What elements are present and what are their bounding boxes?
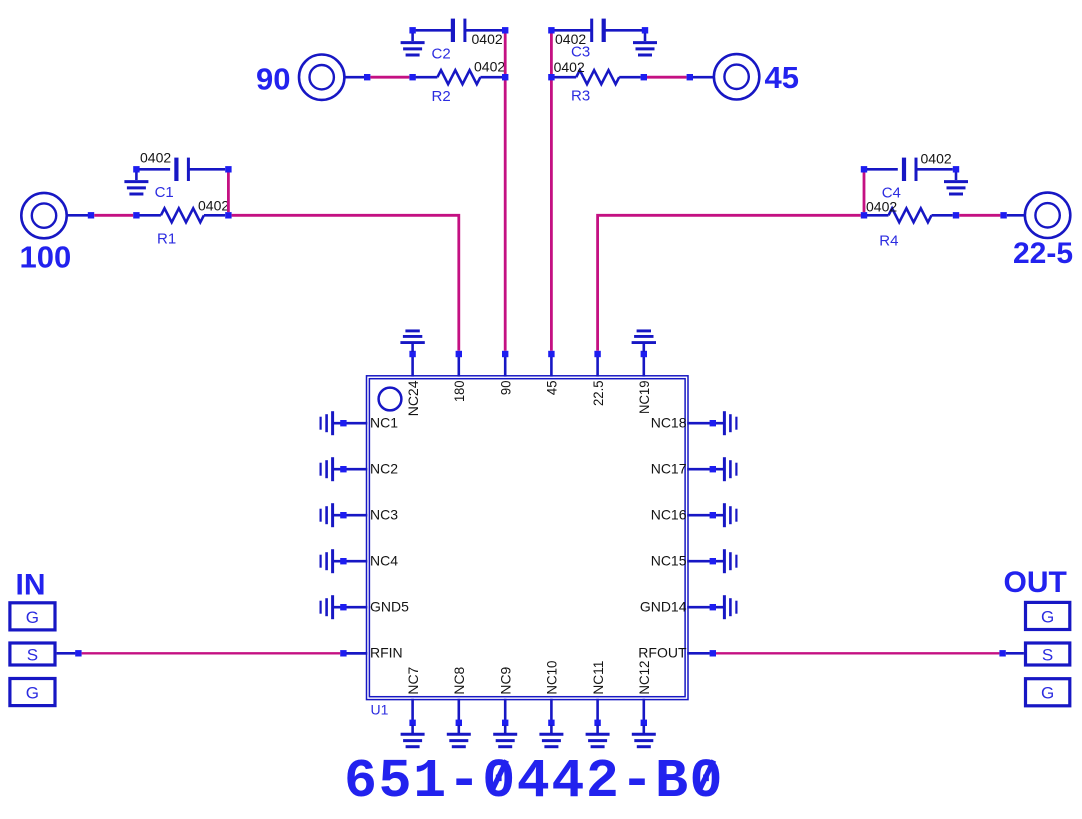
node [364,74,370,80]
svg-text:NC2: NC2 [370,460,398,476]
wire port100 to node [66,214,88,217]
capacitor C3 [548,19,642,61]
svg-text:R3: R3 [571,87,590,104]
svg-text:NC1: NC1 [370,414,398,430]
wire RFOUT net [716,652,999,654]
svg-text:G: G [1041,607,1054,626]
svg-text:R2: R2 [432,88,451,105]
pin NC16 (right) [651,506,725,522]
pin NC2 (left) [334,460,398,476]
pin NC9 (bottom) [497,666,513,726]
ground [493,725,517,747]
wire C4 down to R4 [863,173,866,213]
wire net 22.5 [598,215,861,350]
svg-text:90: 90 [497,380,513,395]
node [1000,212,1006,218]
wire node to port45 [693,76,714,79]
svg-text:NC9: NC9 [497,666,513,694]
node junction R4/C4 [861,212,867,218]
svg-text:RFIN: RFIN [370,645,403,661]
resistor R1 [139,198,229,248]
ground [724,457,736,481]
svg-text:NC19: NC19 [636,380,652,414]
label IN [16,568,46,601]
wire vertical net 45 [550,34,553,351]
wire port90 to node [344,76,364,79]
svg-text:0402: 0402 [472,31,503,47]
svg-text:GND5: GND5 [370,598,409,614]
ground C4 [944,172,968,194]
node junction R2/C2 vertical [502,74,508,80]
ground C3 [633,33,657,55]
node [88,212,94,218]
pin NC11 (bottom) [590,660,606,726]
ground [586,725,610,747]
IC U1 body [367,376,689,718]
pin RFOUT (right) [638,645,716,661]
wire node to S box (OUT) [1006,652,1024,655]
svg-text:R4: R4 [879,233,898,250]
ground [321,411,333,435]
svg-text:R1: R1 [157,230,176,247]
ground [539,725,563,747]
resistor R2 [416,58,506,105]
node C4 right [953,166,959,172]
pin NC4 (left) [334,552,398,568]
ground [724,595,736,619]
node [75,650,81,656]
svg-text:G: G [1041,684,1054,703]
pin NC3 (left) [334,506,398,522]
ground [447,725,471,747]
svg-text:NC3: NC3 [370,506,398,522]
svg-text:NC24: NC24 [405,380,421,416]
capacitor C2 [409,19,502,63]
port 22-5 [1013,193,1073,270]
svg-text:NC12: NC12 [636,660,652,694]
svg-text:45: 45 [765,60,799,95]
svg-text:NC10: NC10 [544,660,560,694]
svg-text:0402: 0402 [198,198,229,214]
wire [94,214,133,217]
node R3 right [641,74,647,80]
pin 180 (top) [451,351,467,402]
svg-text:OUT: OUT [1004,566,1067,599]
svg-text:180: 180 [451,380,467,402]
svg-text:S: S [1042,645,1053,664]
node [133,212,139,218]
svg-text:0402: 0402 [140,149,171,165]
pad S (IN) [10,643,55,665]
wire [370,76,409,79]
pin NC17 (right) [651,460,725,476]
node R4 right [953,212,959,218]
ground [632,331,656,352]
svg-text:NC7: NC7 [405,666,421,694]
wire RFIN net [82,652,341,654]
svg-text:NC8: NC8 [451,666,467,694]
node [409,74,415,80]
svg-text:651-0442-B0: 651-0442-B0 [344,750,724,813]
pin NC1 (left) [334,414,398,430]
ground C1 [124,172,148,194]
svg-text:100: 100 [20,239,72,274]
resistor R4 [866,199,953,250]
node [999,650,1005,656]
node [687,74,693,80]
ground [321,457,333,481]
ground [400,331,424,352]
title 651-0442-B0 [344,750,724,813]
port 90 [256,54,344,99]
label OUT [1004,566,1067,599]
svg-text:NC11: NC11 [590,660,606,694]
svg-text:22.5: 22.5 [590,380,606,406]
wire node to port [1007,214,1026,217]
ground [724,549,736,573]
pad G (OUT top) [1026,602,1070,629]
pad S (OUT) [1026,643,1070,665]
ground C2 [401,33,425,55]
node C1 right [225,166,231,172]
wire [647,76,687,79]
svg-text:S: S [27,645,38,664]
ground [632,725,656,747]
capacitor C4 [861,151,953,202]
port 100 [20,193,72,274]
pin NC15 (right) [651,552,725,568]
svg-text:C2: C2 [432,46,451,63]
svg-text:C1: C1 [155,184,174,201]
pin 22.5 (top) [590,351,606,406]
wire C1 down to R1 [227,173,230,213]
svg-text:NC15: NC15 [651,552,687,568]
pin RFIN (left) [340,645,402,661]
svg-text:IN: IN [16,568,46,601]
pin NC24 (top) [405,351,421,417]
ground [321,595,333,619]
svg-text:GND14: GND14 [640,598,687,614]
wire vertical net 90 [504,34,507,351]
svg-text:0402: 0402 [554,59,585,75]
pin GND5 (left) [334,598,409,614]
svg-text:C4: C4 [882,185,901,202]
svg-text:NC4: NC4 [370,552,398,568]
pin NC8 (bottom) [451,666,467,726]
pad G (IN top) [10,603,55,630]
node C3 right [642,27,648,33]
pad G (IN bottom) [10,679,55,706]
node junction R1/C1 [225,212,231,218]
ground [321,503,333,527]
svg-text:22-5: 22-5 [1013,237,1073,270]
pin NC10 (bottom) [544,660,560,726]
pin NC18 (right) [651,414,725,430]
resistor R3 [548,59,640,104]
pin NC12 (bottom) [636,660,652,726]
node C2 right [502,27,508,33]
wire node to RFIN pin [346,652,366,655]
wire [959,214,1000,217]
svg-text:NC16: NC16 [651,506,687,522]
pin GND14 (right) [640,598,725,614]
capacitor C1 [133,149,225,201]
svg-text:0402: 0402 [921,151,952,167]
svg-text:45: 45 [544,380,560,395]
pin 45 (top) [544,351,560,395]
ground [321,549,333,573]
ground [401,725,425,747]
svg-text:G: G [26,608,39,627]
svg-text:RFOUT: RFOUT [638,645,687,661]
svg-text:90: 90 [256,62,290,97]
svg-text:G: G [26,684,39,703]
svg-text:NC17: NC17 [651,460,687,476]
wire S box to node (IN) [57,652,76,655]
svg-text:U1: U1 [371,702,389,718]
svg-text:C3: C3 [571,44,590,61]
port 45 [714,54,799,99]
ground [724,503,736,527]
pin NC7 (bottom) [405,666,421,726]
ground [724,411,736,435]
svg-text:NC18: NC18 [651,414,687,430]
svg-text:0402: 0402 [474,58,505,74]
wire net 180 [232,215,459,350]
pin 90 (top) [497,351,513,395]
pad G (OUT bottom) [1026,679,1070,706]
pin NC19 (top) [636,351,652,414]
